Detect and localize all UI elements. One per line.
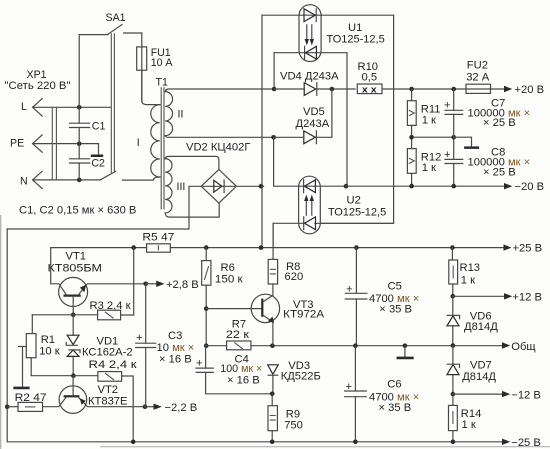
resistor R6	[202, 248, 243, 346]
zener VD6	[447, 296, 498, 345]
wire VD4 line	[274, 88, 355, 90]
svg-text:КТ805БМ: КТ805БМ	[48, 262, 103, 274]
output -2.2V	[145, 402, 197, 414]
node R14 bottom rail	[451, 440, 456, 445]
ground chassis floating	[13, 347, 29, 390]
ground chassis mid C7C8	[454, 137, 479, 149]
svg-text:VT1: VT1	[66, 251, 87, 263]
wire left rail	[7, 229, 504, 442]
wire PE line	[33, 143, 99, 145]
node rail R3 junction	[131, 245, 136, 250]
output Obshch	[502, 341, 536, 353]
svg-text:U1: U1	[348, 22, 362, 34]
node +12V junction	[451, 294, 456, 299]
svg-text:FU2: FU2	[467, 60, 488, 72]
svg-text:Д243А: Д243А	[296, 118, 330, 130]
diode VD4	[280, 71, 339, 96]
XP1 cable double lines	[52, 107, 56, 180]
output +25V	[504, 243, 543, 255]
node C5 bottom	[353, 343, 358, 348]
capacitor C2	[70, 144, 106, 180]
svg-text:ТО125-12,5: ТО125-12,5	[327, 33, 385, 45]
node ground stub Obshch	[403, 343, 408, 348]
wire -12V line	[453, 393, 503, 395]
svg-text:VD4 Д243А: VD4 Д243А	[280, 71, 339, 83]
output -25V	[502, 437, 541, 449]
svg-text:R14: R14	[461, 408, 482, 420]
bridge rectifier VD2	[186, 142, 250, 204]
output +20V	[504, 84, 544, 96]
svg-text:× 25 В: × 25 В	[483, 166, 516, 178]
svg-text:VD5: VD5	[303, 106, 325, 118]
winding I of T1	[122, 70, 159, 180]
node rail bridge plus junction	[259, 245, 264, 250]
svg-text:I: I	[137, 137, 140, 149]
node R11 top	[409, 87, 414, 92]
resistor R12	[407, 137, 441, 186]
svg-text:x x: x x	[362, 84, 378, 94]
svg-text:III: III	[177, 181, 186, 193]
svg-text:L: L	[21, 101, 27, 113]
node VT3 base line	[204, 306, 209, 311]
optothyristor U2	[273, 176, 393, 234]
svg-text:КС162А-2: КС162А-2	[82, 347, 133, 359]
node VT1 base	[71, 313, 76, 318]
wire +12V line	[453, 295, 505, 297]
wire U1 bottom-left vertical	[273, 53, 275, 89]
node R9 bottom rail	[270, 440, 275, 445]
scan artifact bottom edge	[100, 446, 550, 447]
svg-text:+: +	[346, 381, 353, 393]
wire mid line R11 R12	[412, 136, 454, 138]
svg-text:R1: R1	[41, 334, 55, 346]
transformer T1 core	[161, 88, 164, 209]
node L junction	[77, 105, 82, 110]
svg-text:× 25 В: × 25 В	[483, 117, 516, 129]
svg-text:VD2 КЦ402Г: VD2 КЦ402Г	[186, 142, 250, 154]
node VD4 cathode junction	[330, 87, 335, 92]
wire +25V rail	[51, 247, 505, 249]
svg-text:22 к: 22 к	[226, 329, 249, 341]
resistor R8	[268, 223, 303, 284]
node R7 right VT3 emitter	[270, 343, 275, 348]
zener VD1	[66, 315, 132, 376]
node VD3 bottom C4	[270, 392, 275, 397]
node +2.8V junction	[143, 282, 148, 287]
transistor VT2	[43, 376, 146, 414]
svg-text:SA1: SA1	[106, 12, 126, 24]
node bridge plus	[259, 184, 264, 189]
svg-text:100 мк ×: 100 мк ×	[220, 363, 262, 375]
transistor VT3	[251, 284, 324, 346]
node VD5 anode junction	[271, 135, 276, 140]
resistor R1	[26, 315, 73, 376]
switch SA1	[100, 12, 142, 180]
capacitor C4	[196, 346, 272, 394]
node PE junction	[77, 141, 82, 146]
node U1 bottom rail joins -20V	[344, 184, 349, 189]
node rail R6 junction	[204, 245, 209, 250]
svg-text:+: +	[346, 284, 353, 296]
svg-text:150 к: 150 к	[215, 273, 243, 285]
optothyristor U1	[262, 5, 394, 62]
ground chassis on PE	[91, 144, 103, 157]
pin N of XP1	[20, 171, 42, 188]
svg-text:Общ: Общ	[511, 341, 535, 353]
winding II of T1	[165, 89, 274, 137]
wire L up to SA1	[79, 35, 108, 108]
connector XP1 label	[5, 69, 71, 92]
capacitor C5	[345, 248, 419, 346]
svg-text:C6: C6	[387, 379, 401, 391]
node VD4 anode junction	[272, 87, 277, 92]
wire -20V line	[346, 185, 505, 187]
output +2.8V	[146, 279, 199, 291]
svg-text:C2: C2	[91, 157, 105, 169]
svg-text:Д814Д: Д814Д	[464, 321, 498, 333]
wire U1 top-left vertical	[261, 15, 263, 247]
wire N line	[33, 179, 101, 181]
wire VT3 base line	[206, 308, 261, 310]
svg-text:−2,2 В: −2,2 В	[165, 402, 198, 414]
node C6 bottom rail	[353, 440, 358, 445]
svg-text:+20 В: +20 В	[515, 84, 545, 96]
fuse FU2	[466, 60, 491, 94]
diode VD5	[296, 106, 330, 144]
svg-text:C5: C5	[388, 281, 402, 293]
svg-text:PE: PE	[10, 138, 24, 150]
svg-text:C1, C2 0,15 мк × 630 В: C1, C2 0,15 мк × 630 В	[19, 205, 136, 217]
svg-text:КТ837Е: КТ837Е	[88, 396, 127, 408]
svg-text:1 к: 1 к	[422, 114, 436, 126]
svg-text:VD7: VD7	[470, 360, 492, 372]
node mid C7C8	[451, 135, 456, 140]
wire FU2 to +20V arrow	[490, 88, 505, 90]
node -2.2V junction	[143, 404, 148, 409]
node R12 bottom	[409, 184, 414, 189]
svg-text:R13: R13	[460, 262, 481, 274]
diode VD3	[268, 360, 321, 394]
resistor R9	[268, 394, 303, 442]
svg-text:−12 В: −12 В	[511, 389, 541, 401]
scan artifact left edge	[0, 215, 1, 449]
capacitor C1	[70, 107, 106, 143]
wire VD5 line and up to VD4 cathode	[274, 89, 332, 137]
svg-text:"Сеть 220 В": "Сеть 220 В"	[5, 80, 71, 92]
svg-text:C3: C3	[168, 330, 182, 342]
node R7 left	[204, 343, 209, 348]
winding III of T1	[165, 156, 219, 217]
svg-text:10 мк ×: 10 мк ×	[157, 342, 195, 354]
wire bridge plus to node	[236, 185, 263, 187]
svg-text:1 к: 1 к	[422, 162, 436, 174]
svg-text:1 к: 1 к	[461, 274, 475, 286]
svg-text:R6: R6	[221, 262, 235, 274]
node C7 top	[451, 87, 456, 92]
svg-text:0,5: 0,5	[362, 72, 378, 84]
svg-text:+: +	[444, 149, 451, 161]
svg-text:620: 620	[285, 271, 304, 283]
wire U1 right rail down to U2	[320, 15, 393, 223]
wire U2 bottom left down	[272, 223, 274, 247]
resistor R10	[357, 61, 382, 94]
svg-text:+: +	[136, 332, 143, 344]
svg-text:+2,8 В: +2,8 В	[166, 279, 199, 291]
wire VT1 base line	[32, 314, 97, 316]
fuse FU1	[137, 33, 174, 101]
svg-text:10 А: 10 А	[151, 57, 174, 69]
wire Obshch line	[355, 345, 504, 347]
svg-text:× 16 В: × 16 В	[159, 353, 192, 365]
node N junction	[77, 178, 82, 183]
svg-text:+25 В: +25 В	[513, 243, 543, 255]
svg-text:× 16 В: × 16 В	[227, 375, 260, 387]
resistor R13	[449, 248, 480, 297]
node rail C5 junction	[354, 245, 359, 250]
node mid R11R12	[409, 135, 414, 140]
svg-text:R4 2,4 к: R4 2,4 к	[89, 359, 137, 371]
resistor R5	[142, 232, 174, 253]
wire L line	[33, 106, 112, 108]
transistor VT1	[48, 248, 146, 315]
svg-text:VD1: VD1	[97, 335, 119, 347]
ground chassis Obshch	[397, 346, 414, 360]
node -12V junction	[451, 392, 456, 397]
node Obshch junction	[451, 343, 456, 348]
wire bridge minus down-left	[7, 186, 201, 229]
svg-text:Д814Д: Д814Д	[462, 371, 496, 383]
svg-text:R5 47: R5 47	[142, 232, 174, 244]
output -12V	[502, 389, 541, 401]
resistor R2	[7, 392, 46, 412]
resistor R11	[407, 89, 440, 137]
svg-text:+12 В: +12 В	[512, 291, 542, 303]
resistor R7	[206, 318, 355, 349]
svg-text:+: +	[196, 357, 203, 369]
svg-text:ТО125-12,5: ТО125-12,5	[328, 207, 386, 219]
svg-text:II: II	[178, 109, 184, 121]
svg-text:U2: U2	[347, 194, 361, 206]
svg-text:T1: T1	[156, 77, 168, 89]
svg-text:VT2: VT2	[98, 384, 119, 396]
wire U1 bottom right vertical	[346, 53, 348, 187]
wire VD5 node down to U2	[274, 137, 299, 186]
zener VD7	[447, 346, 496, 395]
svg-text:× 35 В: × 35 В	[379, 402, 412, 414]
output -20V	[504, 181, 544, 193]
svg-text:−20 В: −20 В	[515, 181, 545, 193]
node VD1 bottom	[71, 373, 76, 378]
node rail R13 junction	[450, 245, 455, 250]
node R2 left on rail	[5, 404, 10, 409]
svg-text:32 А: 32 А	[466, 72, 490, 84]
resistor R4	[73, 359, 136, 442]
node C8 bottom	[451, 184, 456, 189]
svg-text:N: N	[20, 176, 28, 188]
svg-text:750: 750	[284, 419, 303, 431]
svg-text:КТ972А: КТ972А	[283, 309, 324, 321]
resistor R3	[90, 248, 134, 320]
pin L of XP1	[21, 99, 42, 116]
pin PE of XP1	[10, 135, 42, 152]
capacitor C6	[345, 346, 420, 442]
svg-text:+: +	[444, 100, 451, 112]
svg-text:1 к: 1 к	[462, 419, 476, 431]
svg-text:C1: C1	[92, 121, 106, 133]
capacitor C3	[136, 284, 195, 407]
resistor R14	[449, 394, 482, 441]
capacitor C7	[444, 89, 530, 137]
svg-text:10 к: 10 к	[39, 345, 60, 357]
svg-text:× 35 В: × 35 В	[379, 304, 412, 316]
capacitor C8	[444, 137, 530, 186]
node R4 bottom rail	[131, 440, 136, 445]
wire R10 to FU2	[383, 88, 466, 90]
output +12V	[504, 291, 542, 303]
svg-text:КД522Б: КД522Б	[281, 370, 321, 382]
